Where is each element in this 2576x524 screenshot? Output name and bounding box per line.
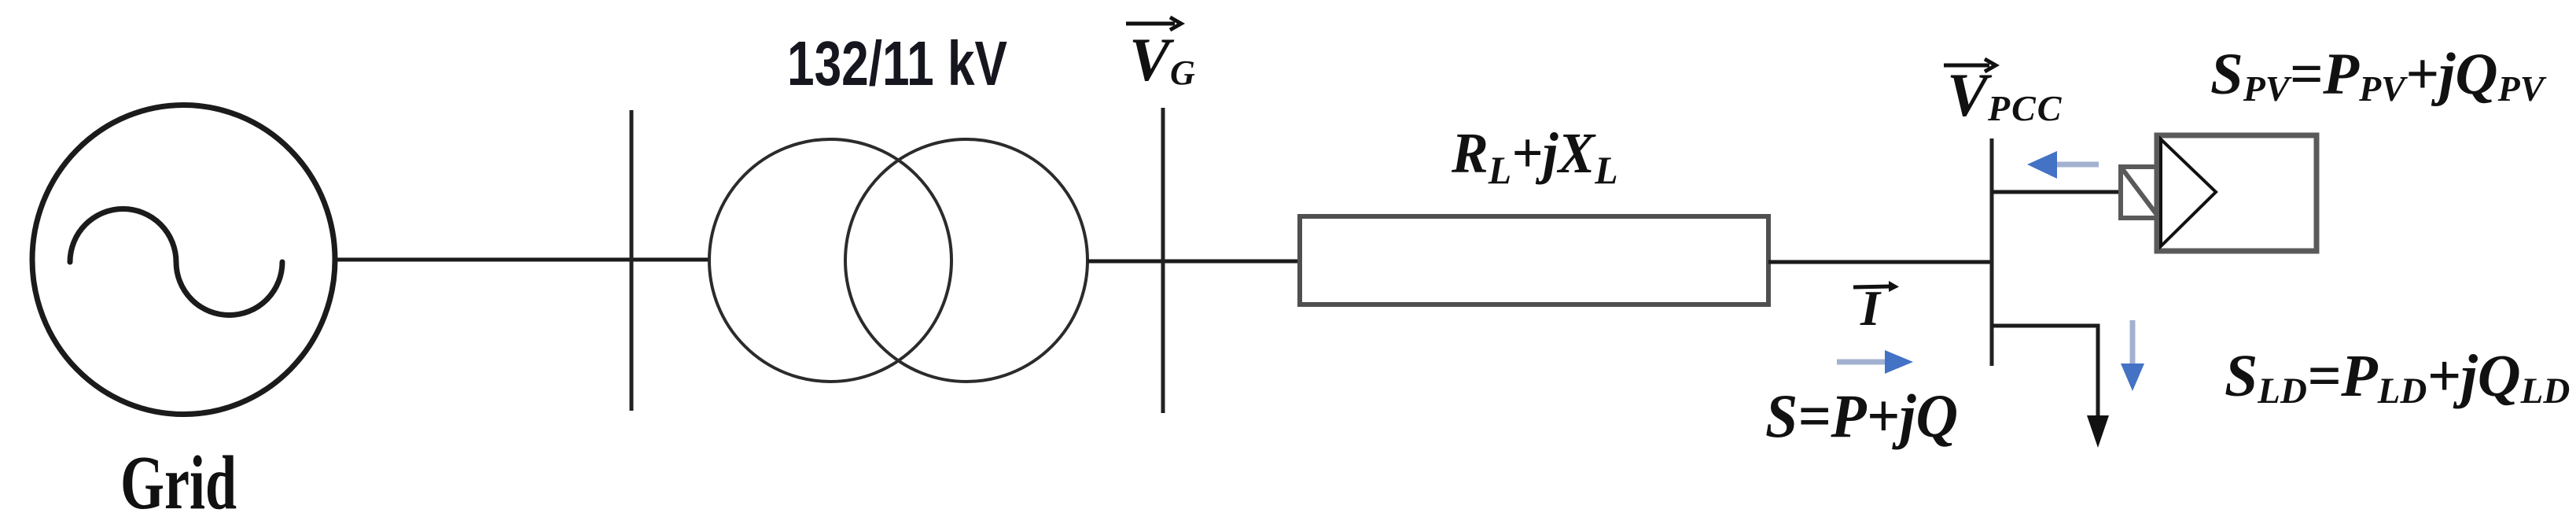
busbar B2: [1161, 108, 1165, 413]
load branch wire: [1992, 326, 2098, 419]
svg-text:RL+jXL: RL+jXL: [1451, 122, 1618, 192]
grid source circle: [32, 105, 335, 415]
PV inverter triangle: [2161, 139, 2216, 246]
label VPCC vector arrow: [1944, 59, 1996, 72]
label RL+jXL: [1451, 122, 1618, 192]
label VG vector arrow: [1126, 17, 1181, 30]
current flow arrow blue: [1837, 350, 1913, 374]
transformer T1 primary winding: [709, 139, 951, 382]
busbar PCC: [1990, 138, 1994, 366]
PV inverter dc side box: [2121, 167, 2159, 218]
load flow arrow blue down: [2121, 320, 2144, 391]
load arrow: [2087, 415, 2109, 448]
label current I vector: [1853, 280, 1899, 336]
svg-text:I: I: [1860, 280, 1882, 336]
svg-text:Grid: Grid: [120, 441, 237, 524]
transformer T1 secondary winding: [845, 139, 1087, 382]
svg-text:132/11 kV: 132/11 kV: [787, 28, 1007, 98]
grid sine wave: [70, 209, 282, 316]
label SLD=PLD+jQLD: [2225, 343, 2570, 411]
PV power flow arrow blue left: [2027, 151, 2099, 179]
line impedance box RL+jXL: [1300, 216, 1768, 304]
label SPV=PPV+jQPV: [2210, 42, 2547, 109]
busbar B1: [630, 110, 634, 411]
wire line to PCC bus: [1768, 260, 1992, 264]
wire PCC to PV inverter: [1992, 190, 2121, 194]
wire grid to bus1: [336, 258, 710, 262]
wire transformer to bus2: [1087, 260, 1302, 264]
PV inverter box: [2157, 135, 2317, 251]
svg-text:S=P+jQ: S=P+jQ: [1765, 382, 1958, 450]
